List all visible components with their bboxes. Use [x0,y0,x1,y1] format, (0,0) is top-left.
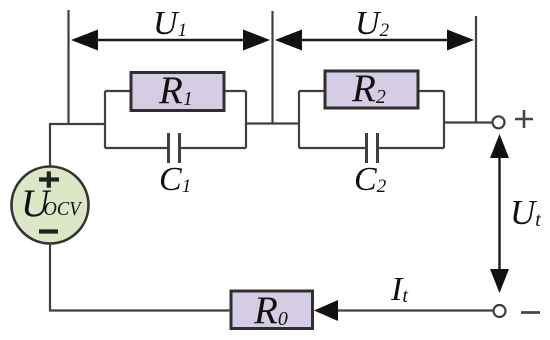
wire loop1 top branch [105,90,246,92]
node tick left (U1 measurement boundary) [67,10,69,124]
capacitor C2 [354,133,387,198]
wire loop2 to positive terminal [444,121,493,123]
wire loop1 left edge [104,91,106,148]
dimension arrow U2 [275,30,474,51]
plus sign at terminal [515,110,533,128]
wire between RC groups [246,122,299,124]
wire loop2 top branch [299,90,444,92]
voltage source U_OCV [12,167,89,244]
wire: source top to main node [50,124,105,167]
dimension arrow U1 [71,30,270,51]
wire loop2 right edge [443,91,445,148]
resistor R2 [325,67,418,110]
current arrowhead It [314,300,338,321]
svg-text:OCV: OCV [44,198,84,220]
positive terminal [493,116,505,128]
wire loop1 right edge [245,91,247,148]
wire bottom with current arrow It [332,309,494,311]
wire R0 to source bottom [50,244,231,311]
capacitor C1 [159,133,191,198]
wire loop1 bottom branch right [180,147,246,149]
wire loop2 bottom branch left [299,147,366,149]
node tick middle (between U1 and U2) [271,11,273,124]
wire loop1 bottom branch left [105,147,168,149]
negative terminal [494,305,506,317]
dimension arrow Ut [490,134,509,293]
RC group 1 frame [105,91,246,148]
resistor R0 [231,289,313,332]
wire loop2 bottom branch right [378,147,444,149]
node tick right (U2 measurement boundary) [475,16,477,123]
RC group 2 frame [299,91,444,148]
wire loop2 left edge [298,91,300,148]
minus sign at terminal [521,311,540,314]
resistor R1 [131,69,224,112]
